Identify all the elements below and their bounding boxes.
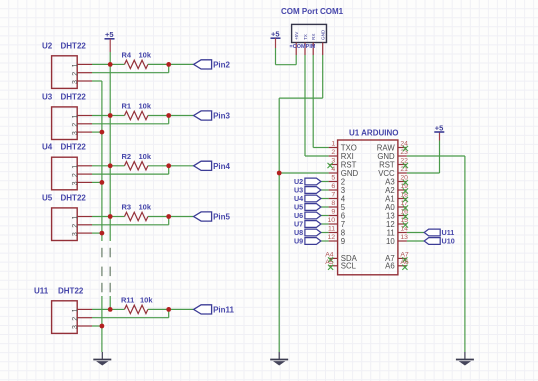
svg-text:9: 9 xyxy=(341,237,345,246)
svg-text:RX: RX xyxy=(311,34,316,40)
svg-text:12: 12 xyxy=(328,234,336,241)
svg-text:U4: U4 xyxy=(42,143,53,152)
svg-text:10k: 10k xyxy=(139,203,152,212)
svg-text:DHT22: DHT22 xyxy=(61,41,87,50)
svg-text:10k: 10k xyxy=(139,50,152,59)
svg-text:U10: U10 xyxy=(442,237,455,246)
svg-text:10k: 10k xyxy=(139,152,152,161)
svg-text:7: 7 xyxy=(331,192,335,199)
svg-text:A6: A6 xyxy=(385,262,395,271)
svg-text:11: 11 xyxy=(328,226,335,233)
svg-text:2: 2 xyxy=(331,149,335,156)
svg-text:Pin11: Pin11 xyxy=(213,306,234,315)
svg-text:U5: U5 xyxy=(42,193,53,202)
svg-text:TX: TX xyxy=(303,34,308,40)
svg-text:9: 9 xyxy=(331,209,335,216)
svg-text:U11: U11 xyxy=(34,286,49,295)
svg-text:10: 10 xyxy=(328,217,336,224)
svg-text:+5V: +5V xyxy=(294,31,299,40)
svg-text:+5: +5 xyxy=(271,30,280,39)
svg-text:Pin2: Pin2 xyxy=(213,61,230,70)
svg-text:R1: R1 xyxy=(122,102,132,111)
svg-text:1: 1 xyxy=(331,141,335,148)
svg-text:DHT22: DHT22 xyxy=(61,92,87,101)
svg-text:=COMPIM: =COMPIM xyxy=(290,44,316,50)
svg-text:10: 10 xyxy=(386,237,395,246)
svg-text:Pin4: Pin4 xyxy=(213,162,230,171)
svg-text:8: 8 xyxy=(331,200,335,207)
svg-text:U3: U3 xyxy=(42,92,53,101)
svg-text:R11: R11 xyxy=(121,295,134,304)
svg-text:13: 13 xyxy=(400,234,408,241)
svg-text:Pin5: Pin5 xyxy=(213,213,230,222)
svg-text:10k: 10k xyxy=(140,295,153,304)
svg-text:SCL: SCL xyxy=(341,262,357,271)
svg-text:6: 6 xyxy=(331,183,335,190)
svg-text:R4: R4 xyxy=(122,50,132,59)
svg-text:5: 5 xyxy=(331,175,335,182)
svg-text:GND: GND xyxy=(321,29,326,40)
svg-text:DHT22: DHT22 xyxy=(61,143,87,152)
svg-text:COM1: COM1 xyxy=(320,7,344,16)
svg-text:+5: +5 xyxy=(435,123,444,132)
svg-text:10k: 10k xyxy=(139,102,152,111)
svg-text:U2: U2 xyxy=(42,41,53,50)
svg-text:U1 ARDUINO: U1 ARDUINO xyxy=(349,129,398,138)
svg-text:DHT22: DHT22 xyxy=(58,286,84,295)
svg-text:R3: R3 xyxy=(122,203,132,212)
svg-text:Pin3: Pin3 xyxy=(213,112,230,121)
svg-text:R2: R2 xyxy=(122,152,132,161)
svg-text:+5: +5 xyxy=(105,30,114,39)
svg-text:U9: U9 xyxy=(294,237,303,246)
svg-text:DHT22: DHT22 xyxy=(61,193,87,202)
svg-text:COM Port: COM Port xyxy=(281,7,318,16)
